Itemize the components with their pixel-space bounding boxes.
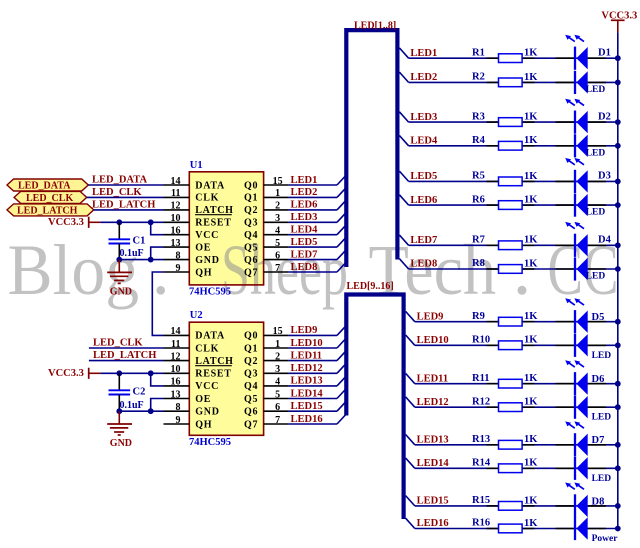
U1 pin 5 (Q5) [244, 238, 289, 254]
bus entry LED14 [337, 389, 346, 399]
LED light arrows D1 [565, 35, 584, 42]
junction LED15 anode on VCC rail [615, 503, 621, 509]
junction VCC3.3/C2 top [116, 370, 122, 376]
U1 pin 16 (VCC) [164, 226, 220, 242]
svg-text:LED5: LED5 [291, 237, 318, 248]
svg-text:Q3: Q3 [244, 218, 258, 229]
svg-text:1K: 1K [524, 48, 538, 59]
svg-text:VCC3.3: VCC3.3 [48, 217, 84, 228]
wire LED13 row [415, 444, 618, 446]
bus exit LED8 [399, 259, 408, 269]
svg-text:LED8: LED8 [410, 259, 437, 270]
wire GND riser to U2 pin 13 (OE) [151, 399, 164, 412]
svg-text:Q6: Q6 [244, 255, 258, 266]
svg-text:LED16: LED16 [417, 518, 449, 529]
bus entry LED9 [337, 325, 346, 335]
svg-text:LED[9..16]: LED[9..16] [347, 281, 394, 292]
U1 pin 10 (RESET) [164, 213, 232, 229]
svg-text:12: 12 [171, 351, 181, 362]
junction LED1 anode on VCC rail [615, 55, 621, 61]
resistor R4 [499, 141, 523, 150]
U2 pin 1 (Q1) [244, 339, 289, 355]
bus LED[1..8] [346, 30, 397, 267]
svg-text:LED2: LED2 [291, 187, 318, 198]
U1 pin 11 (CLK) [164, 188, 220, 204]
wire VCC3.3 drop to U2 pin 16 [151, 373, 164, 386]
wire net LED12 from U2 pin 3 to bus [289, 372, 337, 374]
svg-text:9: 9 [176, 263, 181, 274]
svg-text:U2: U2 [190, 310, 203, 321]
svg-text:GND: GND [195, 407, 219, 418]
svg-text:CLK: CLK [195, 193, 219, 204]
svg-text:14: 14 [171, 326, 181, 337]
svg-text:1K: 1K [524, 235, 538, 246]
wire LED6 row [409, 204, 618, 206]
U2 pin 10 (RESET) [164, 364, 232, 380]
svg-text:R11: R11 [472, 373, 490, 384]
LED diode LED11 (cathode bar + triangle) [575, 372, 588, 395]
svg-text:LED: LED [586, 272, 606, 282]
bus entry LED1 [337, 175, 346, 185]
wire LED3 row [409, 121, 618, 123]
svg-text:2: 2 [275, 351, 280, 362]
bus exit LED10 [406, 335, 415, 345]
svg-text:Q1: Q1 [244, 343, 258, 354]
svg-text:OE: OE [195, 394, 211, 405]
svg-text:1K: 1K [524, 373, 538, 384]
wire net LED14 from U2 pin 5 to bus [289, 398, 337, 400]
wire LED12 row [415, 406, 618, 408]
wire LED8 row [409, 268, 618, 270]
wire GND net U1 (pin 8) [119, 259, 163, 261]
U2 pin 4 (Q4) [244, 377, 289, 393]
svg-text:1K: 1K [524, 311, 538, 322]
junction LED7 anode on VCC rail [615, 242, 621, 248]
U1 pin 8 (GND) [164, 250, 220, 266]
LED diode LED6 (cathode bar + triangle) [575, 194, 588, 217]
svg-text:LED_LATCH: LED_LATCH [92, 199, 155, 210]
svg-text:VCC: VCC [195, 230, 219, 241]
svg-text:LED1: LED1 [291, 175, 318, 186]
junction LED10 anode on VCC rail [615, 342, 621, 348]
junction LED14 anode on VCC rail [615, 465, 621, 471]
svg-text:1K: 1K [524, 112, 538, 123]
svg-text:0.1uF: 0.1uF [120, 248, 144, 259]
svg-text:LED: LED [592, 351, 612, 361]
svg-text:OE: OE [195, 242, 211, 253]
junction GND/U1 OE branch [148, 257, 154, 263]
bus entry LED7 [337, 250, 346, 260]
bus entry LED4 [337, 225, 346, 235]
bus exit LED11 [406, 373, 415, 383]
wire net LED15 from U2 pin 6 to bus [289, 410, 337, 412]
svg-text:R10: R10 [472, 335, 490, 346]
bus exit LED5 [399, 171, 408, 181]
svg-text:LED14: LED14 [291, 388, 324, 399]
U1 pin 15 (Q0) [244, 176, 289, 192]
IC U2 body fill [189, 322, 263, 435]
bus exit LED9 [406, 311, 415, 321]
bus entry LED5 [337, 237, 346, 247]
wire LED11 row [415, 383, 618, 385]
bus exit LED16 [406, 518, 415, 528]
svg-text:D7: D7 [592, 435, 605, 446]
junction LED4 anode on VCC rail [615, 143, 621, 149]
wire U1 QH (pin 9) to U2 DATA (pin 14) [152, 272, 163, 335]
power symbol VCC3.3 (U2) [48, 368, 100, 379]
bus exit LED3 [399, 112, 408, 122]
resistor R7 [499, 241, 523, 250]
svg-text:14: 14 [171, 176, 181, 187]
junction LED3 anode on VCC rail [615, 119, 621, 125]
svg-text:1K: 1K [524, 397, 538, 408]
wire net LED11 from U2 pin 2 to bus [289, 360, 337, 362]
capacitor C2 [109, 373, 131, 411]
svg-text:1K: 1K [524, 258, 538, 269]
wire LED_LATCH port to U1 pin 12 [94, 209, 164, 211]
bus exit LED6 [399, 195, 408, 205]
svg-text:LED10: LED10 [417, 335, 449, 346]
svg-text:D4: D4 [598, 235, 612, 246]
svg-text:74HC595: 74HC595 [189, 437, 231, 448]
svg-text:7: 7 [275, 263, 280, 274]
LED light arrows D2 [565, 99, 584, 106]
U2 RESET pin overline [195, 365, 232, 367]
wire net LED2 from U1 pin 1 to bus [289, 196, 337, 198]
svg-text:C2: C2 [133, 387, 146, 398]
svg-text:GND: GND [195, 255, 219, 266]
svg-text:DATA: DATA [195, 331, 225, 342]
U2 pin 16 (VCC) [164, 377, 220, 393]
svg-text:LED: LED [586, 208, 606, 218]
IC U1 body fill [189, 172, 263, 285]
U1 pin 12 (LATCH) [164, 201, 234, 217]
svg-text:RESET: RESET [195, 218, 231, 229]
bus exit LED12 [406, 397, 415, 407]
svg-text:Q4: Q4 [244, 381, 258, 392]
bus exit LED2 [399, 72, 408, 82]
svg-text:R12: R12 [472, 396, 490, 407]
bus entry LED16 [337, 414, 346, 424]
LED diode LED9 (cathode bar + triangle) [575, 310, 588, 333]
svg-text:10: 10 [171, 364, 181, 375]
svg-text:LED15: LED15 [417, 496, 449, 507]
svg-text:Q6: Q6 [244, 407, 258, 418]
svg-text:QH: QH [195, 267, 212, 278]
wire LED5 row [409, 180, 618, 182]
svg-text:LED12: LED12 [417, 397, 449, 408]
svg-text:D2: D2 [598, 111, 611, 122]
LED diode LED15 (cathode bar + triangle) [575, 494, 588, 517]
svg-text:R1: R1 [472, 47, 485, 58]
wire net LED4 from U1 pin 4 to bus [289, 234, 337, 236]
svg-text:LED6: LED6 [291, 200, 318, 211]
U2 pin 13 (OE) [164, 389, 212, 405]
wire net LED16 from U2 pin 7 to bus [289, 423, 337, 425]
svg-text:LED13: LED13 [417, 435, 449, 446]
junction LED16 anode on VCC rail [615, 526, 621, 532]
svg-text:11: 11 [171, 188, 180, 199]
svg-text:8: 8 [176, 250, 181, 261]
svg-text:Q1: Q1 [244, 193, 258, 204]
svg-text:1K: 1K [524, 495, 538, 506]
LED light arrows D8 [565, 483, 584, 490]
watermark Blog.SheepTech.CC [8, 230, 619, 310]
svg-text:Q0: Q0 [244, 331, 258, 342]
svg-text:U1: U1 [190, 160, 203, 171]
resistor R15 [499, 502, 523, 511]
wire LED15 row [415, 505, 618, 507]
svg-text:16: 16 [171, 377, 181, 388]
U1 pin 1 (Q1) [244, 188, 289, 204]
resistor R14 [499, 464, 523, 473]
bus LED[9..16] [346, 295, 403, 520]
svg-text:DATA: DATA [195, 180, 225, 191]
svg-text:LED11: LED11 [417, 373, 449, 384]
wire LED_CLK port to U1 pin 11 [87, 196, 164, 198]
ground symbol (U2) [107, 411, 132, 435]
LED diode LED1 (cathode bar + triangle) [575, 47, 588, 70]
LED light arrows D5 [565, 298, 584, 305]
svg-text:LED10: LED10 [291, 338, 323, 349]
svg-text:VCC3.3: VCC3.3 [48, 368, 84, 379]
wire LED_DATA port to U1 pin 14 [88, 184, 163, 186]
svg-text:LED4: LED4 [410, 136, 438, 147]
U2 pin 12 (LATCH) [164, 351, 234, 367]
svg-text:8: 8 [176, 402, 181, 413]
wire LED4 row [409, 145, 618, 147]
svg-text:R4: R4 [472, 135, 486, 146]
svg-text:11: 11 [171, 339, 180, 350]
svg-text:R14: R14 [472, 458, 491, 469]
wire net LED10 from U2 pin 1 to bus [289, 347, 337, 349]
resistor R10 [499, 341, 523, 350]
svg-text:Q7: Q7 [244, 419, 258, 430]
U2 pin 5 (Q5) [244, 389, 289, 405]
port LED_LATCH [7, 204, 94, 217]
bus exit LED7 [399, 235, 408, 245]
svg-text:LED16: LED16 [291, 414, 323, 425]
bus entry LED6 [337, 200, 346, 210]
U2 pin 9 (QH) [164, 415, 213, 431]
svg-text:10: 10 [171, 213, 181, 224]
svg-text:LED6: LED6 [410, 195, 437, 206]
svg-text:LED9: LED9 [417, 311, 444, 322]
LED diode LED16 (cathode bar + triangle) [575, 517, 588, 540]
bus entry LED12 [337, 363, 346, 373]
svg-text:LED_CLK: LED_CLK [26, 193, 73, 204]
svg-text:Q5: Q5 [244, 394, 258, 405]
U2 pin 14 (DATA) [164, 326, 226, 342]
svg-text:D1: D1 [598, 47, 611, 58]
svg-text:R7: R7 [472, 235, 485, 246]
U1 pin 13 (OE) [164, 238, 212, 254]
wire net LED6 from U1 pin 2 to bus [289, 209, 337, 211]
wire LED_LATCH to U2 pin 12 [89, 360, 164, 362]
bus exit LED14 [406, 458, 415, 468]
port LED_CLK [14, 191, 87, 204]
svg-text:R3: R3 [472, 111, 485, 122]
svg-text:D6: D6 [592, 374, 605, 385]
IC U1 74HC595 border [189, 172, 263, 285]
svg-text:3: 3 [275, 213, 280, 224]
svg-text:Q2: Q2 [244, 356, 258, 367]
junction LED8 anode on VCC rail [615, 266, 621, 272]
svg-text:QH: QH [195, 419, 212, 430]
bus exit LED4 [399, 136, 408, 146]
LED light arrows D6 [565, 360, 584, 367]
LED diode LED3 (cathode bar + triangle) [575, 111, 588, 134]
svg-text:LED9: LED9 [291, 325, 318, 336]
LED diode LED4 (cathode bar + triangle) [575, 134, 588, 157]
bus exit LED13 [406, 435, 415, 445]
svg-text:Q2: Q2 [244, 205, 258, 216]
svg-text:4: 4 [275, 377, 280, 388]
svg-text:LED8: LED8 [291, 262, 318, 273]
svg-text:LED12: LED12 [291, 363, 323, 374]
svg-text:R13: R13 [472, 434, 490, 445]
svg-text:LED_DATA: LED_DATA [18, 181, 71, 192]
svg-text:9: 9 [176, 415, 181, 426]
wire VCC3.3 to U2 pin 10 [100, 372, 163, 374]
svg-text:Power: Power [592, 534, 619, 544]
svg-text:LED15: LED15 [291, 401, 323, 412]
junction LED5 anode on VCC rail [615, 179, 621, 185]
bus entry LED8 [337, 262, 346, 272]
junction GND/U2 OE branch [148, 408, 154, 414]
U1 pin 9 (QH) [164, 263, 213, 279]
U2 pin 3 (Q3) [244, 364, 289, 380]
svg-text:C1: C1 [133, 236, 146, 247]
U2 pin 11 (CLK) [164, 339, 220, 355]
wire LED_CLK to U2 pin 11 [89, 347, 164, 349]
svg-text:LED3: LED3 [291, 212, 318, 223]
capacitor C1 [109, 222, 131, 259]
resistor R12 [499, 403, 523, 412]
U1 pin 7 (Q7) [244, 263, 289, 279]
svg-text:13: 13 [171, 238, 181, 249]
svg-text:LED_LATCH: LED_LATCH [17, 205, 78, 216]
svg-text:12: 12 [171, 201, 181, 212]
svg-text:1: 1 [275, 339, 280, 350]
U1 pin 4 (Q4) [244, 226, 289, 242]
svg-text:1K: 1K [524, 135, 538, 146]
power symbol VCC3.3 (top right) [601, 10, 637, 32]
svg-text:5: 5 [275, 389, 280, 400]
junction GND/C1 bottom [116, 257, 122, 263]
bus entry LED3 [337, 212, 346, 222]
svg-text:3: 3 [275, 364, 280, 375]
junction VCC3.3/C1 top [116, 219, 122, 225]
junction VCC3.3/U2 pin16 branch [148, 370, 154, 376]
svg-text:LED_LATCH: LED_LATCH [93, 350, 156, 361]
svg-text:Q0: Q0 [244, 180, 258, 191]
svg-text:LED7: LED7 [291, 249, 318, 260]
junction LED11 anode on VCC rail [615, 381, 621, 387]
LED light arrows D4 [565, 222, 584, 229]
svg-text:Sheep: Sheep [221, 230, 348, 310]
wire VCC3.3 rail [617, 32, 619, 528]
wire net LED5 from U1 pin 5 to bus [289, 246, 337, 248]
U1 pin 3 (Q3) [244, 213, 289, 229]
svg-text:1K: 1K [524, 434, 538, 445]
svg-text:15: 15 [273, 176, 283, 187]
svg-text:Q7: Q7 [244, 267, 258, 278]
junction LED6 anode on VCC rail [615, 202, 621, 208]
svg-text:LED: LED [592, 413, 612, 423]
svg-text:RESET: RESET [195, 369, 231, 380]
svg-text:D8: D8 [592, 496, 605, 507]
svg-text:LED7: LED7 [410, 235, 437, 246]
junction LED9 anode on VCC rail [615, 319, 621, 325]
resistor R11 [499, 379, 523, 388]
svg-text:13: 13 [171, 389, 181, 400]
svg-text:D3: D3 [598, 171, 611, 182]
resistor R2 [499, 78, 523, 87]
LED diode LED13 (cathode bar + triangle) [575, 433, 588, 456]
svg-text:1K: 1K [524, 171, 538, 182]
svg-text:LED_CLK: LED_CLK [92, 187, 142, 198]
svg-text:LED: LED [586, 148, 606, 158]
wire GND net U2 (pin 8) [119, 410, 163, 412]
svg-text:R15: R15 [472, 495, 490, 506]
svg-text:R9: R9 [472, 311, 485, 322]
wire net LED13 from U2 pin 4 to bus [289, 385, 337, 387]
wire net LED9 from U2 pin 15 to bus [289, 334, 337, 336]
wire LED14 row [415, 467, 618, 469]
svg-text:LED_CLK: LED_CLK [93, 338, 143, 349]
U2 pin 6 (Q6) [244, 402, 289, 418]
svg-text:GND: GND [110, 438, 132, 449]
svg-text:16: 16 [171, 226, 181, 237]
wire LED1 row [409, 57, 618, 59]
junction LED13 anode on VCC rail [615, 442, 621, 448]
power symbol VCC3.3 (U1) [48, 217, 100, 228]
svg-text:D5: D5 [592, 312, 605, 323]
resistor R3 [499, 118, 523, 127]
LED diode LED7 (cathode bar + triangle) [575, 234, 588, 257]
resistor R13 [499, 440, 523, 449]
wire VCC3.3 to U1 pin 10 [100, 221, 163, 223]
svg-text:1K: 1K [524, 458, 538, 469]
svg-text:LED2: LED2 [410, 72, 437, 83]
svg-text:5: 5 [275, 238, 280, 249]
wire LED16 row [415, 528, 618, 530]
port LED_DATA [7, 179, 88, 192]
wire LED2 row [409, 81, 618, 83]
junction LED2 anode on VCC rail [615, 80, 621, 86]
wire GND riser to U1 pin 13 (OE) [151, 247, 164, 260]
svg-text:1K: 1K [524, 335, 538, 346]
svg-text:LED14: LED14 [417, 458, 450, 469]
svg-text:1: 1 [275, 188, 280, 199]
IC U2 74HC595 border [189, 322, 263, 435]
resistor R9 [499, 317, 523, 326]
LED light arrows D3 [565, 158, 584, 165]
bus exit LED15 [406, 496, 415, 506]
U2 pin 7 (Q7) [244, 415, 289, 431]
svg-text:LED: LED [592, 474, 612, 484]
wire net LED3 from U1 pin 3 to bus [289, 221, 337, 223]
svg-text:R8: R8 [472, 258, 485, 269]
svg-text:6: 6 [275, 250, 280, 261]
svg-text:LED1: LED1 [410, 48, 437, 59]
junction LED12 anode on VCC rail [615, 404, 621, 410]
U2 pin 8 (GND) [164, 402, 220, 418]
svg-text:R2: R2 [472, 72, 485, 83]
bus entry LED15 [337, 401, 346, 411]
svg-text:15: 15 [273, 326, 283, 337]
